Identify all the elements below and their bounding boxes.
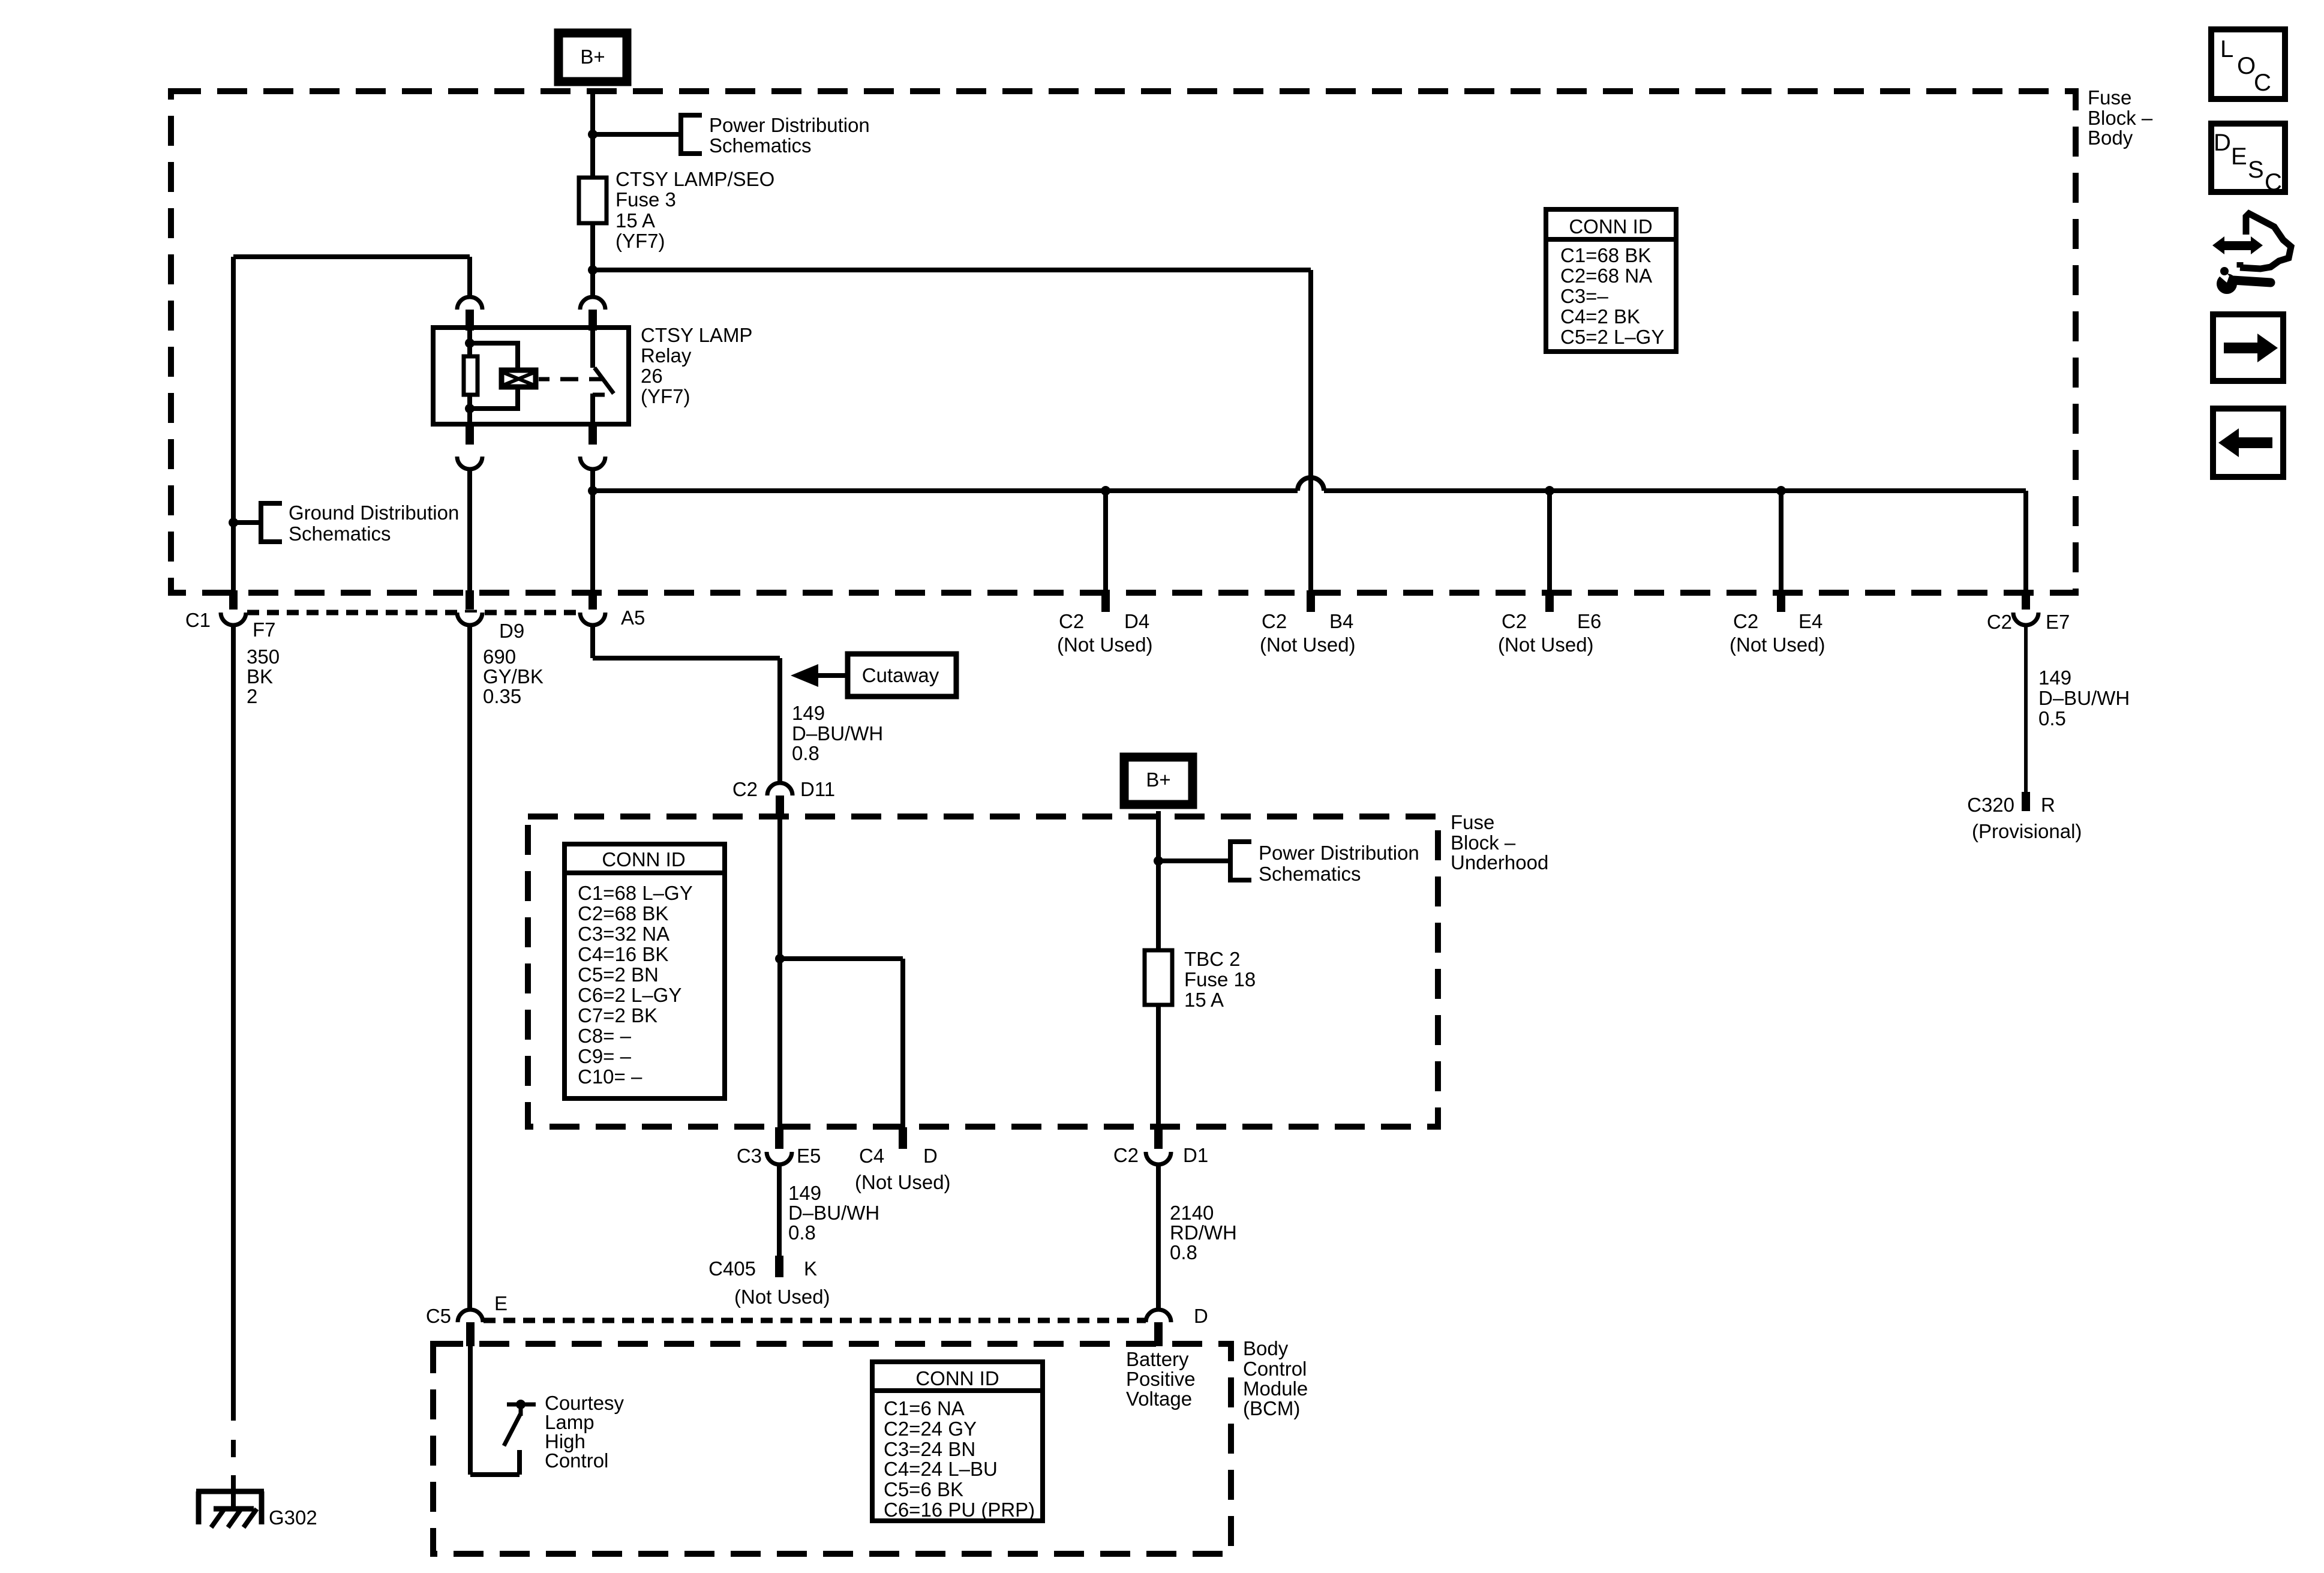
node junction E6 tap [1545,486,1554,496]
svg-text:TBC 2: TBC 2 [1184,948,1241,970]
svg-text:C320: C320 [1967,794,2014,816]
wire branch to power distribution bracket (underhood) [1158,858,1230,863]
pin C4 D not used [899,1127,907,1149]
ground G302 symbol [196,1491,264,1527]
svg-text:F7: F7 [253,619,276,641]
conn id table (bcm) [872,1362,1043,1521]
label C2 D11 [732,778,835,800]
svg-text:C2: C2 [1262,610,1287,632]
wire A5 to D11 (149 D-BU/WH 0.8) [593,626,780,783]
node junction fuse output [588,265,597,275]
connector C5 pin E [458,1310,483,1346]
label C5 E [426,1292,508,1327]
bracket power distribution schematics (underhood) [1230,842,1251,880]
svg-text:CONN ID: CONN ID [915,1367,999,1389]
wire relay pin87 to A5 [590,469,595,592]
fuse block - body dashed enclosure [171,91,2076,593]
node junction on B+ wire [588,130,597,139]
svg-text:(YF7): (YF7) [615,230,665,252]
relay K26 CTSY LAMP body [433,328,629,424]
bcm dashed enclosure [433,1344,1231,1554]
svg-text:Battery: Battery [1126,1348,1189,1370]
label C3 E5 [737,1145,821,1167]
resistor in relay (parallel) [464,356,478,395]
svg-text:D–BU/WH: D–BU/WH [2038,687,2130,709]
svg-text:D11: D11 [800,778,835,800]
svg-text:Control: Control [545,1449,608,1472]
svg-text:K: K [804,1257,817,1280]
svg-text:15 A: 15 A [615,209,655,232]
wire fuse 3 to relay switch [590,223,595,296]
svg-text:C: C [2254,70,2271,96]
wire E5 to C405 (149 D-BU/WH 0.8) [777,1164,782,1257]
svg-text:C1=68 L–GY: C1=68 L–GY [578,882,693,904]
relay bottom pin connector 87 [580,424,605,469]
label C2 E6 (Not Used) [1498,610,1601,656]
node junction underhood B+ [1154,856,1163,866]
svg-text:D: D [923,1145,938,1167]
svg-text:C4=24 L–BU: C4=24 L–BU [884,1458,998,1480]
wire B+ to fuse 3 [590,90,595,180]
pin C2 D4 not used [1101,590,1110,612]
svg-text:C5=2 BN: C5=2 BN [578,963,659,986]
connector C2 pin E7 [2013,590,2038,625]
label Fuse Block - Body [2088,86,2153,149]
fuse block - underhood dashed enclosure [528,816,1438,1127]
svg-text:Voltage: Voltage [1126,1388,1192,1410]
label C320 R (Provisional) [1967,794,2082,842]
svg-text:149: 149 [788,1182,821,1204]
svg-text:O: O [2237,53,2256,79]
svg-text:C4: C4 [859,1145,884,1167]
svg-text:C2=24 GY: C2=24 GY [884,1418,977,1440]
label C1 [185,609,211,631]
svg-text:Fuse: Fuse [1451,811,1494,833]
pin C405 K not used [775,1256,783,1277]
pin C2 E6 not used [1545,590,1554,612]
svg-text:0.8: 0.8 [792,742,819,764]
wire D1 to BCM D (2140 RD/WH 0.8) [1156,1164,1161,1310]
svg-text:C2=68 BK: C2=68 BK [578,902,668,924]
svg-text:B4: B4 [1329,610,1353,632]
label Fuse Block - Underhood [1451,811,1548,873]
label wire 690 GY/BK 0.35 [483,646,544,707]
relay top pin connector 30 (switch) [580,297,605,331]
node junction D4 tap [1101,486,1110,496]
icon LOC box [2211,29,2285,99]
node coil top junction [465,338,475,348]
svg-text:Power Distribution: Power Distribution [1259,842,1419,864]
label C2 E7 [1987,611,2070,633]
svg-text:C6=16 PU (PRP): C6=16 PU (PRP) [884,1499,1035,1521]
wire coil bracket bottom [470,389,518,409]
label G302 [269,1506,317,1529]
label wire 149 D-BU/WH 0.5 [2038,667,2130,730]
wire coil bracket top [470,343,518,368]
wire courtesy lamp switch [470,1346,520,1475]
wire B4 vertical drop [1308,270,1313,592]
svg-text:E4: E4 [1798,610,1822,632]
relay coil pin wire [467,328,472,356]
svg-text:D: D [2214,130,2231,156]
svg-text:C2: C2 [1113,1144,1139,1166]
svg-text:C3=32 NA: C3=32 NA [578,923,669,945]
svg-text:(Not Used): (Not Used) [1730,634,1825,656]
svg-text:D4: D4 [1124,610,1149,632]
connector C1 pin F7 [221,590,246,625]
svg-text:C2: C2 [732,778,758,800]
svg-text:C1: C1 [185,609,211,631]
connector C2 pin D1 [1146,1127,1171,1164]
svg-text:D9: D9 [499,620,524,642]
svg-text:(YF7): (YF7) [641,385,690,407]
label C2 D1 [1113,1144,1208,1166]
svg-text:(Not Used): (Not Used) [1057,634,1153,656]
connector C2 pin D11 [767,783,792,818]
svg-text:D–BU/WH: D–BU/WH [792,722,883,745]
svg-text:Underhood: Underhood [1451,851,1548,873]
svg-text:C9= –: C9= – [578,1045,632,1067]
svg-text:2140: 2140 [1170,1202,1214,1224]
svg-text:C: C [2265,169,2282,196]
svg-text:C4=2 BK: C4=2 BK [1560,305,1640,328]
svg-text:(BCM): (BCM) [1243,1397,1300,1419]
svg-text:26: 26 [641,365,663,387]
bcm connector id line C5 (dotted) [484,1318,1146,1323]
svg-text:CONN ID: CONN ID [602,848,685,870]
bracket power distribution schematics (body) [681,115,702,154]
svg-text:Schematics: Schematics [1259,863,1361,885]
label wire 149 D-BU/WH 0.8 (to C405) [788,1182,879,1244]
label wire 350 BK 2 [247,646,280,707]
icon vehicle service (arrows and wrench) [2212,214,2291,294]
wire F7 to G302 (350 BK 2) [231,626,236,1510]
svg-text:Positive: Positive [1126,1368,1196,1390]
svg-text:C3=24 BN: C3=24 BN [884,1438,975,1460]
svg-text:0.5: 0.5 [2038,707,2066,730]
svg-text:E7: E7 [2046,611,2070,633]
svg-text:E: E [494,1292,508,1314]
svg-text:C2: C2 [1733,610,1758,632]
svg-text:CTSY LAMP: CTSY LAMP [641,324,752,346]
svg-text:(Not Used): (Not Used) [1260,634,1356,656]
label C405 K (Not Used) [708,1257,830,1308]
fuse F18 TBC 2 element [1145,950,1172,1005]
svg-text:Fuse: Fuse [2088,86,2131,109]
connector id line C1 (dotted) [247,610,579,616]
svg-text:C4=16 BK: C4=16 BK [578,943,668,965]
label Ground Distribution Schematics [289,502,459,545]
svg-text:(Not Used): (Not Used) [855,1171,951,1193]
svg-text:Fuse 3: Fuse 3 [615,188,676,211]
node junction E4 tap [1776,486,1786,496]
svg-text:C2: C2 [1059,610,1084,632]
label Power Distribution Schematics (body) [709,114,870,157]
pin C2 E4 not used [1777,590,1785,612]
relay switch blade [594,368,614,394]
label C2 D4 (Not Used) [1057,610,1153,656]
svg-text:2: 2 [247,685,257,707]
svg-text:C3: C3 [737,1145,762,1167]
wire E7 to C320 (149 D-BU/WH 0.5) [2024,626,2028,792]
connector C1 pin A5 [580,590,605,625]
svg-text:L: L [2220,36,2233,62]
wire fuse output bus to B4 drop [593,268,1311,272]
svg-text:C2: C2 [1987,611,2012,633]
wire D4 drop [1103,491,1108,592]
icon forward arrow box [2213,314,2283,381]
conn id table (body) [1546,209,1676,352]
relay top pin connector 86 (coil) [457,297,482,331]
svg-text:Schematics: Schematics [709,134,812,157]
node junction output bus [588,486,597,496]
svg-text:(Not Used): (Not Used) [1498,634,1594,656]
svg-text:Schematics: Schematics [289,523,391,545]
svg-text:D1: D1 [1183,1144,1208,1166]
wire TBC2 fuse to D1 [1156,1005,1161,1127]
svg-text:149: 149 [2038,667,2071,689]
label Courtesy Lamp High Control [545,1392,624,1472]
relay switch upper contact [590,328,595,368]
label A5 [621,607,645,629]
label CTSY LAMP/SEO Fuse 3 15A (YF7) [615,168,774,252]
connector C1 pin D9 [457,590,482,625]
svg-text:C8= –: C8= – [578,1025,632,1047]
svg-text:0.8: 0.8 [788,1221,816,1244]
icon back arrow box [2213,409,2283,477]
svg-text:C6=2 L–GY: C6=2 L–GY [578,984,681,1006]
svg-text:B+: B+ [580,46,605,68]
wire D9 to C5/E (690 GY/BK 0.35) [467,626,472,1310]
label D (BCM pin) [1194,1305,1208,1327]
svg-text:Ground Distribution: Ground Distribution [289,502,459,524]
svg-text:B+: B+ [1146,769,1170,791]
svg-text:0.35: 0.35 [483,685,521,707]
wire output bus left segment [593,488,1298,493]
wire E4 drop [1779,491,1783,592]
svg-text:Control: Control [1243,1358,1307,1380]
cutaway arrow [791,664,848,687]
icon DESC box [2211,124,2285,196]
cutaway box [848,654,956,697]
svg-text:E5: E5 [797,1145,821,1167]
svg-text:Relay: Relay [641,344,692,367]
wire relay coil to left bus [233,257,470,592]
svg-text:CONN ID: CONN ID [1569,215,1652,238]
svg-text:E: E [2231,143,2247,170]
svg-text:C10= –: C10= – [578,1065,642,1088]
wire branch to C4-D [780,959,903,1127]
wire D11 to E5 [777,818,782,1127]
wire E7 drop [2023,491,2028,592]
svg-text:C5=6 BK: C5=6 BK [884,1478,963,1500]
svg-text:C1=6 NA: C1=6 NA [884,1397,965,1419]
svg-text:(Provisional): (Provisional) [1972,820,2082,842]
svg-text:690: 690 [483,646,516,668]
label wire 2140 RD/WH 0.8 [1170,1202,1237,1263]
svg-text:C1=68 BK: C1=68 BK [1560,244,1651,266]
svg-text:Body: Body [2088,127,2133,149]
wire branch to power distribution bracket [593,132,681,137]
svg-text:BK: BK [247,665,273,688]
svg-text:0.8: 0.8 [1170,1241,1197,1263]
svg-text:350: 350 [247,646,280,668]
power B+ terminal (top) [559,33,627,82]
wire branch to ground distribution bracket [233,520,261,525]
conn id table (underhood) [565,844,725,1098]
svg-text:R: R [2041,794,2055,816]
wire hop over B4 (no connection) [1298,478,1324,491]
label F7 [253,619,276,641]
svg-text:C5: C5 [426,1305,451,1327]
svg-text:GY/BK: GY/BK [483,665,544,688]
power B+ terminal (underhood) [1124,757,1193,804]
svg-text:Module: Module [1243,1377,1308,1400]
fuse F3 CTSY LAMP/SEO element [579,178,606,223]
svg-text:RD/WH: RD/WH [1170,1221,1237,1244]
wire coil bottom [467,397,472,424]
connector C3 pin E5 [767,1127,792,1164]
relay actuator dashed link [539,377,602,382]
svg-text:149: 149 [792,702,825,724]
label C4 D (Not Used) [855,1145,951,1193]
switch fixed contact [507,1400,536,1416]
switch blade courtesy lamp high control [504,1413,521,1446]
label D9 [499,620,524,642]
relay coil winding symbol [502,370,536,387]
svg-text:(Not Used): (Not Used) [734,1286,830,1308]
svg-text:A5: A5 [621,607,645,629]
wire B+ to TBC2 fuse [1156,811,1161,950]
pin C320 R provisional [2022,792,2030,811]
label Body Control Module (BCM) [1243,1337,1308,1419]
label CTSY LAMP Relay 26 (YF7) [641,324,752,407]
svg-text:C405: C405 [708,1257,756,1280]
svg-text:D: D [1194,1305,1208,1327]
pin C2 B4 not used [1307,590,1315,612]
svg-text:C5=2 L–GY: C5=2 L–GY [1560,326,1664,348]
svg-text:G302: G302 [269,1506,317,1529]
relay switch lower contact [593,394,605,424]
node junction C4 branch [775,954,785,963]
svg-text:C2=68 NA: C2=68 NA [1560,265,1652,287]
svg-text:E6: E6 [1577,610,1601,632]
svg-text:15 A: 15 A [1184,989,1224,1011]
svg-text:Power Distribution: Power Distribution [709,114,870,136]
svg-text:C7=2 BK: C7=2 BK [578,1004,657,1026]
wire output bus right segment [1324,488,2026,493]
svg-text:Block –: Block – [1451,831,1516,854]
svg-text:Body: Body [1243,1337,1289,1359]
label C2 E4 (Not Used) [1730,610,1825,656]
connector BCM pin D [1146,1310,1171,1346]
label Power Distribution Schematics (underhood) [1259,842,1419,885]
svg-text:Block –: Block – [2088,107,2153,129]
svg-text:CTSY LAMP/SEO: CTSY LAMP/SEO [615,168,774,190]
label wire 149 D-BU/WH 0.8 (to D11) [792,702,883,764]
label C2 B4 (Not Used) [1260,610,1356,656]
node junction ground distribution [229,518,238,527]
label Battery Positive Voltage [1126,1348,1196,1410]
svg-text:D–BU/WH: D–BU/WH [788,1202,879,1224]
svg-text:Fuse 18: Fuse 18 [1184,968,1256,990]
wire relay pin85 to D9 [467,469,472,592]
wire E6 drop [1547,491,1552,592]
svg-text:S: S [2248,157,2264,183]
svg-text:C3=–: C3=– [1560,285,1608,307]
relay bottom pin connector 85 [457,424,482,469]
node coil bottom junction [465,404,475,413]
svg-text:Cutaway: Cutaway [862,664,939,686]
label TBC 2 Fuse 18 15A [1184,948,1256,1011]
bracket ground distribution schematics [261,503,282,542]
svg-text:C2: C2 [1502,610,1527,632]
